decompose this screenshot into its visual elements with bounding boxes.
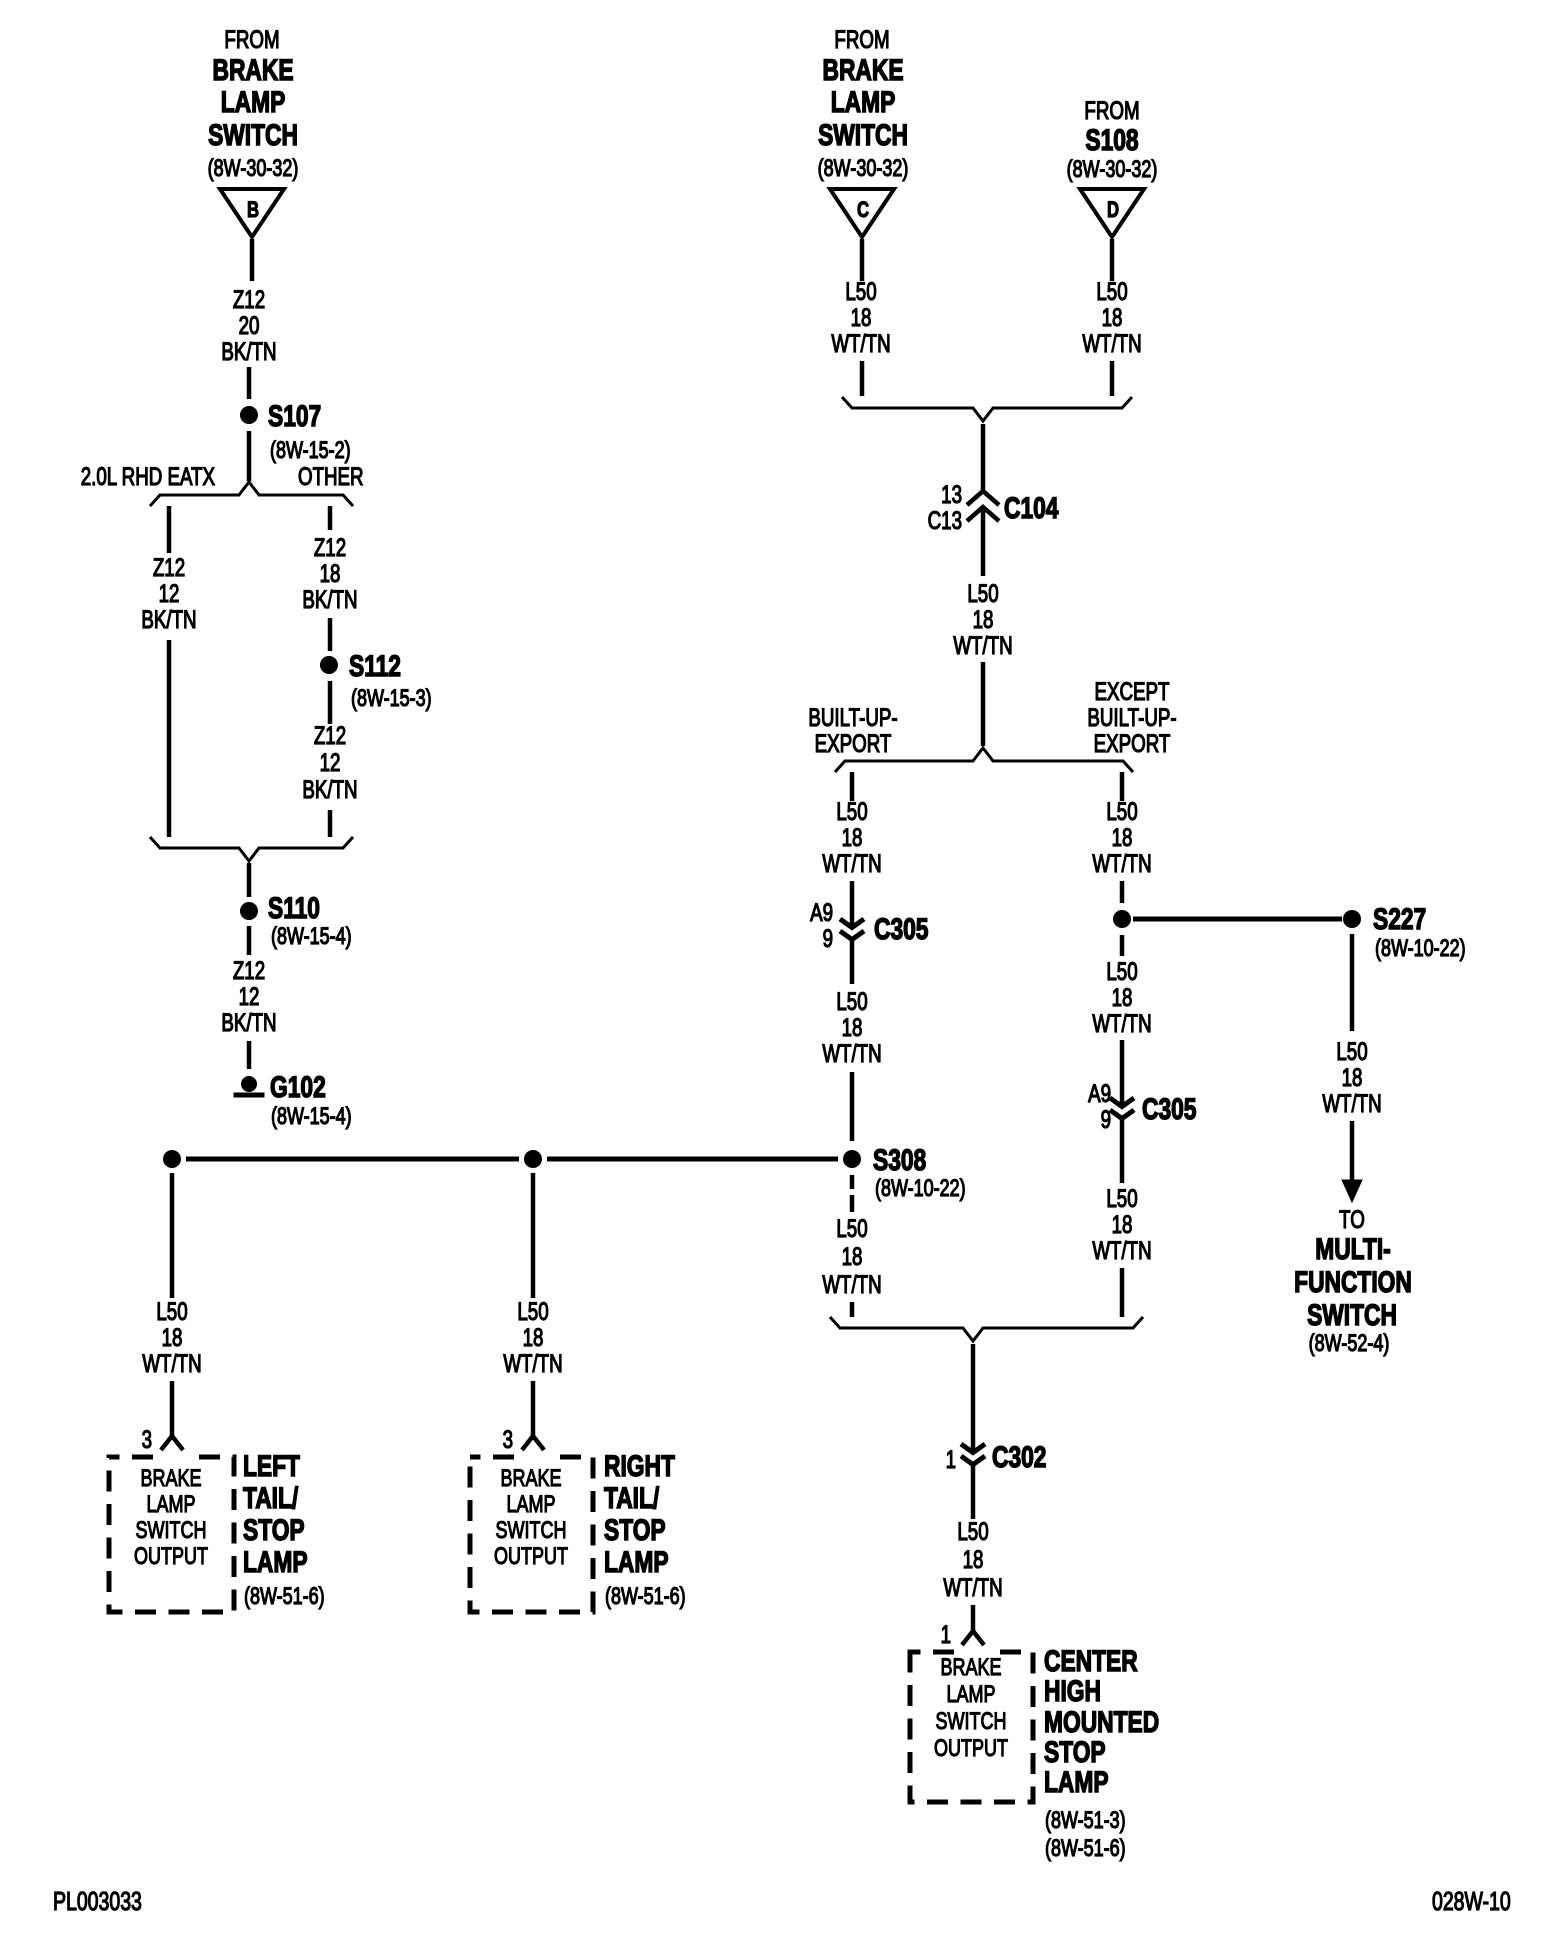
wire label L50 18 WT/TN middle drop xyxy=(503,1297,562,1377)
svg-text:A9: A9 xyxy=(810,898,833,926)
component box RIGHT TAIL/STOP LAMP xyxy=(470,1454,593,1613)
wire label L50 18 WT/TN below C302 xyxy=(943,1517,1002,1601)
wire below junction node xyxy=(1120,935,1125,956)
svg-text:BRAKE: BRAKE xyxy=(822,53,903,87)
connector fork left lamp xyxy=(161,1436,183,1450)
svg-text:G102: G102 xyxy=(270,1070,326,1104)
svg-text:18: 18 xyxy=(1102,303,1123,331)
wire label L50 18 WT/TN above S308 xyxy=(822,987,881,1067)
svg-text:L50: L50 xyxy=(517,1297,548,1325)
svg-text:B: B xyxy=(247,198,259,223)
wire label Z12 12 BK/TN to ground xyxy=(221,956,276,1036)
svg-text:L50: L50 xyxy=(1106,1184,1137,1212)
svg-text:SWITCH: SWITCH xyxy=(136,1518,207,1544)
svg-text:(8W-51-6): (8W-51-6) xyxy=(1045,1836,1126,1862)
svg-text:(8W-10-22): (8W-10-22) xyxy=(875,1176,966,1202)
svg-text:FROM: FROM xyxy=(1084,96,1139,124)
wire merge to C104 xyxy=(981,424,986,492)
svg-text:BK/TN: BK/TN xyxy=(141,605,196,633)
svg-text:WT/TN: WT/TN xyxy=(1092,1236,1151,1264)
svg-text:(8W-15-4): (8W-15-4) xyxy=(271,1104,352,1130)
svg-text:18: 18 xyxy=(523,1323,544,1351)
node D source label FROM S108 xyxy=(1067,96,1158,182)
svg-text:18: 18 xyxy=(842,1242,863,1270)
branch label OTHER xyxy=(298,462,364,490)
wire right branch upper xyxy=(328,506,333,530)
wire below S227 xyxy=(1350,934,1355,1031)
wire below S308 xyxy=(850,1175,855,1212)
svg-text:SWITCH: SWITCH xyxy=(496,1518,567,1544)
svg-text:BK/TN: BK/TN xyxy=(221,337,276,365)
wire below S110 xyxy=(247,926,252,955)
label CENTER HIGH MOUNTED STOP LAMP xyxy=(1044,1644,1159,1862)
wire label L50 18 WT/TN left drop xyxy=(142,1297,201,1377)
svg-text:12: 12 xyxy=(320,748,341,776)
wire below S112 xyxy=(328,681,333,724)
wire merge to C302 xyxy=(971,1344,976,1452)
label EXCEPT BUILT-UP-EXPORT xyxy=(1087,677,1176,757)
wire from triangle C xyxy=(860,239,865,281)
svg-text:BK/TN: BK/TN xyxy=(302,775,357,803)
svg-text:18: 18 xyxy=(162,1323,183,1351)
off-page connector triangle C xyxy=(830,189,894,237)
wire label L50 18 WT/TN below S308 xyxy=(822,1214,881,1298)
svg-text:9: 9 xyxy=(1101,1105,1111,1133)
wire label L50 18 WT/TN except branch xyxy=(1092,797,1151,877)
svg-text:S108: S108 xyxy=(1085,123,1138,157)
svg-text:18: 18 xyxy=(963,1545,984,1573)
connector fork right lamp xyxy=(522,1436,544,1450)
svg-text:LAMP: LAMP xyxy=(146,1492,195,1518)
splice S308 xyxy=(843,1143,966,1202)
svg-text:12: 12 xyxy=(159,579,180,607)
svg-text:WT/TN: WT/TN xyxy=(503,1349,562,1377)
wire to center lamp xyxy=(971,1605,976,1631)
svg-text:(8W-30-32): (8W-30-32) xyxy=(1067,157,1158,183)
wire to ground G102 xyxy=(247,1041,252,1069)
svg-text:(8W-51-6): (8W-51-6) xyxy=(605,1584,686,1610)
wire into S308 xyxy=(850,1072,855,1141)
wire label L50 18 WT/TN above C305 right xyxy=(1092,957,1151,1037)
connector C302 xyxy=(946,1440,1047,1474)
svg-text:L50: L50 xyxy=(836,987,867,1015)
junction node middle rail xyxy=(524,1150,542,1168)
svg-text:Z12: Z12 xyxy=(314,533,346,561)
svg-text:(8W-30-32): (8W-30-32) xyxy=(818,156,909,182)
svg-text:18: 18 xyxy=(851,303,872,331)
wire label L50 18 WT/TN column C xyxy=(831,277,890,357)
wire left branch upper xyxy=(167,506,172,553)
svg-text:STOP: STOP xyxy=(604,1513,666,1547)
svg-text:S308: S308 xyxy=(873,1143,926,1177)
svg-text:13: 13 xyxy=(941,480,962,508)
svg-text:(8W-15-4): (8W-15-4) xyxy=(271,924,352,950)
svg-text:WT/TN: WT/TN xyxy=(1322,1089,1381,1117)
label RIGHT TAIL/STOP LAMP xyxy=(604,1449,686,1610)
wire label Z12 12 BK/TN left branch xyxy=(141,553,196,633)
svg-text:LAMP: LAMP xyxy=(604,1545,669,1579)
off-page connector triangle B xyxy=(220,189,284,237)
svg-text:FROM: FROM xyxy=(834,25,889,53)
svg-text:MULTI-: MULTI- xyxy=(1315,1232,1391,1266)
svg-text:BRAKE: BRAKE xyxy=(140,1466,201,1492)
svg-text:OTHER: OTHER xyxy=(298,462,364,490)
junction node left rail xyxy=(163,1150,181,1168)
svg-text:TAIL/: TAIL/ xyxy=(243,1481,299,1515)
node C source label FROM BRAKE LAMP SWITCH xyxy=(818,25,909,181)
wire middle drop lower xyxy=(531,1381,536,1436)
pin 3 left lamp xyxy=(142,1425,152,1453)
svg-text:S112: S112 xyxy=(349,649,401,683)
splice S107 xyxy=(240,399,351,464)
component box LEFT TAIL/STOP LAMP xyxy=(109,1454,234,1613)
wire to multifunction switch arrow xyxy=(1350,1121,1355,1181)
svg-text:WT/TN: WT/TN xyxy=(142,1349,201,1377)
split brace below S107 xyxy=(150,482,353,506)
box text BRAKE LAMP SWITCH OUTPUT middle xyxy=(494,1466,568,1570)
svg-text:C13: C13 xyxy=(928,506,962,534)
wire to splice S107 xyxy=(247,367,252,399)
svg-text:Z12: Z12 xyxy=(233,956,265,984)
wire below C104 xyxy=(981,509,986,576)
merge brace above S110 xyxy=(150,837,353,861)
splice S112 xyxy=(320,649,432,712)
svg-text:WT/TN: WT/TN xyxy=(943,1573,1002,1601)
svg-text:SWITCH: SWITCH xyxy=(208,118,298,152)
label LEFT TAIL/STOP LAMP xyxy=(243,1449,325,1610)
svg-text:20: 20 xyxy=(239,311,260,339)
svg-text:(8W-52-4): (8W-52-4) xyxy=(1309,1331,1390,1357)
splice S227 xyxy=(1343,902,1466,962)
pin 1 center lamp xyxy=(941,1620,951,1648)
svg-text:WT/TN: WT/TN xyxy=(822,849,881,877)
merge brace to C302 xyxy=(830,1317,1143,1341)
off-page connector triangle D xyxy=(1080,189,1144,237)
svg-text:L50: L50 xyxy=(967,579,998,607)
wire left drop lower xyxy=(170,1381,175,1436)
svg-text:WT/TN: WT/TN xyxy=(831,329,890,357)
svg-text:18: 18 xyxy=(1112,1210,1133,1238)
box text BRAKE LAMP SWITCH OUTPUT center xyxy=(934,1655,1008,1762)
svg-text:C302: C302 xyxy=(992,1440,1046,1474)
svg-text:(8W-15-3): (8W-15-3) xyxy=(351,686,432,712)
connector fork center lamp xyxy=(962,1631,984,1645)
svg-text:BRAKE: BRAKE xyxy=(940,1655,1001,1681)
rail wire right segment xyxy=(547,1157,838,1162)
svg-text:(8W-51-6): (8W-51-6) xyxy=(244,1584,325,1610)
svg-text:D: D xyxy=(1107,198,1119,223)
wire below C305 left xyxy=(850,939,855,984)
wire left drop upper xyxy=(170,1173,175,1298)
wire S107 to split xyxy=(247,431,252,481)
wire right branch lower xyxy=(328,810,333,837)
merge brace C and D xyxy=(842,397,1132,421)
svg-text:C305: C305 xyxy=(1142,1092,1197,1126)
svg-text:BRAKE: BRAKE xyxy=(500,1466,561,1492)
svg-text:OUTPUT: OUTPUT xyxy=(494,1544,568,1570)
svg-text:BUILT-UP-: BUILT-UP- xyxy=(1087,703,1176,731)
svg-text:BRAKE: BRAKE xyxy=(212,53,293,87)
rail wire left segment xyxy=(186,1157,519,1162)
svg-text:L50: L50 xyxy=(1106,957,1137,985)
svg-text:STOP: STOP xyxy=(1044,1735,1106,1769)
svg-text:LAMP: LAMP xyxy=(221,85,286,119)
svg-text:S107: S107 xyxy=(268,399,321,433)
svg-text:WT/TN: WT/TN xyxy=(1092,1009,1151,1037)
splice S110 xyxy=(240,891,352,950)
svg-text:BUILT-UP-: BUILT-UP- xyxy=(808,703,897,731)
svg-text:1: 1 xyxy=(946,1445,956,1473)
svg-text:(8W-10-22): (8W-10-22) xyxy=(1375,936,1466,962)
svg-text:3: 3 xyxy=(503,1425,513,1453)
wire label L50 18 WT/TN built-up xyxy=(822,797,881,877)
label TO MULTI-FUNCTION SWITCH xyxy=(1294,1205,1412,1356)
svg-text:WT/TN: WT/TN xyxy=(822,1270,881,1298)
svg-text:12: 12 xyxy=(239,982,260,1010)
label BUILT-UP-EXPORT xyxy=(808,703,897,757)
wire to export split xyxy=(981,662,986,746)
svg-text:3: 3 xyxy=(142,1425,152,1453)
svg-text:FROM: FROM xyxy=(224,25,279,53)
wire except branch to merge xyxy=(1120,1268,1125,1317)
svg-text:L50: L50 xyxy=(836,797,867,825)
svg-text:Z12: Z12 xyxy=(233,285,265,313)
svg-text:SWITCH: SWITCH xyxy=(1307,1298,1397,1332)
svg-text:TAIL/: TAIL/ xyxy=(604,1481,660,1515)
wire label Z12 18 BK/TN right branch xyxy=(302,533,357,613)
wire junction to S227 xyxy=(1133,917,1342,922)
wire from triangle D xyxy=(1110,239,1115,281)
svg-text:L50: L50 xyxy=(836,1214,867,1242)
svg-text:EXCEPT: EXCEPT xyxy=(1095,677,1170,705)
svg-text:2.0L RHD EATX: 2.0L RHD EATX xyxy=(81,462,216,490)
split brace export xyxy=(835,748,1133,772)
svg-text:18: 18 xyxy=(842,1013,863,1041)
footer code 028W-10 xyxy=(1432,1886,1511,1915)
junction node to S227 xyxy=(1113,910,1131,928)
svg-text:PL003033: PL003033 xyxy=(53,1886,142,1915)
svg-text:L50: L50 xyxy=(957,1517,988,1545)
wire left branch long xyxy=(167,640,172,837)
connector C305 right xyxy=(1088,1079,1197,1133)
svg-text:EXPORT: EXPORT xyxy=(815,729,892,757)
wire to C305 left xyxy=(850,881,855,927)
svg-text:S227: S227 xyxy=(1373,902,1426,936)
svg-text:S110: S110 xyxy=(268,891,320,925)
wire merge to S110 xyxy=(247,863,252,897)
svg-text:CENTER: CENTER xyxy=(1044,1644,1138,1678)
svg-text:(8W-51-3): (8W-51-3) xyxy=(1045,1808,1126,1834)
svg-text:BK/TN: BK/TN xyxy=(221,1008,276,1036)
wire C to merge xyxy=(860,361,865,396)
wire label Z12 20 BK/TN xyxy=(221,285,276,365)
connector C104 xyxy=(928,480,1059,534)
branch label 2.0L RHD EATX xyxy=(81,462,216,490)
svg-text:L50: L50 xyxy=(156,1297,187,1325)
svg-text:(8W-30-32): (8W-30-32) xyxy=(208,156,299,182)
wire D to merge xyxy=(1110,361,1115,396)
svg-text:LAMP: LAMP xyxy=(506,1492,555,1518)
svg-text:SWITCH: SWITCH xyxy=(936,1709,1007,1735)
svg-text:MOUNTED: MOUNTED xyxy=(1044,1705,1159,1739)
svg-text:L50: L50 xyxy=(1106,797,1137,825)
svg-text:C: C xyxy=(857,198,869,223)
svg-text:(8W-15-2): (8W-15-2) xyxy=(270,438,351,464)
svg-text:WT/TN: WT/TN xyxy=(1082,329,1141,357)
wire middle drop upper xyxy=(531,1173,536,1298)
svg-text:OUTPUT: OUTPUT xyxy=(134,1544,208,1570)
svg-text:Z12: Z12 xyxy=(314,721,346,749)
svg-text:FUNCTION: FUNCTION xyxy=(1294,1265,1412,1299)
svg-text:18: 18 xyxy=(973,605,994,633)
svg-text:A9: A9 xyxy=(1088,1079,1111,1107)
svg-text:L50: L50 xyxy=(845,277,876,305)
svg-text:LAMP: LAMP xyxy=(1044,1765,1109,1799)
svg-text:Z12: Z12 xyxy=(153,553,185,581)
svg-text:BK/TN: BK/TN xyxy=(302,585,357,613)
wire label L50 18 WT/TN column D xyxy=(1082,277,1141,357)
node B source label FROM BRAKE LAMP SWITCH xyxy=(208,25,299,181)
svg-text:WT/TN: WT/TN xyxy=(822,1039,881,1067)
svg-text:TO: TO xyxy=(1339,1205,1365,1233)
wire label L50 18 WT/TN below C305 right xyxy=(1092,1184,1151,1264)
wire label Z12 12 BK/TN below S112 xyxy=(302,721,357,803)
svg-text:L50: L50 xyxy=(1096,277,1127,305)
svg-text:LAMP: LAMP xyxy=(243,1545,308,1579)
svg-text:EXPORT: EXPORT xyxy=(1094,729,1171,757)
svg-text:C104: C104 xyxy=(1004,491,1059,525)
wire from triangle B down xyxy=(250,239,255,281)
wire below C302 xyxy=(971,1464,976,1519)
wire below C305 right xyxy=(1120,1118,1125,1183)
svg-text:028W-10: 028W-10 xyxy=(1432,1886,1511,1915)
wire label L50 18 WT/TN below C104 xyxy=(953,579,1012,659)
svg-text:18: 18 xyxy=(1342,1063,1363,1091)
svg-text:L50: L50 xyxy=(1336,1037,1367,1065)
svg-text:WT/TN: WT/TN xyxy=(953,631,1012,659)
wire S308 branch to merge xyxy=(850,1302,855,1317)
svg-text:18: 18 xyxy=(1112,823,1133,851)
svg-text:18: 18 xyxy=(320,559,341,587)
svg-text:18: 18 xyxy=(1112,983,1133,1011)
svg-text:LAMP: LAMP xyxy=(946,1682,995,1708)
wire except branch upper xyxy=(1120,772,1125,801)
svg-text:18: 18 xyxy=(842,823,863,851)
ground G102 xyxy=(234,1070,352,1130)
connector C305 left xyxy=(810,898,929,952)
svg-text:C305: C305 xyxy=(874,912,929,946)
svg-text:OUTPUT: OUTPUT xyxy=(934,1736,1008,1762)
svg-text:SWITCH: SWITCH xyxy=(818,118,908,152)
svg-text:WT/TN: WT/TN xyxy=(1092,849,1151,877)
svg-text:LEFT: LEFT xyxy=(243,1449,300,1483)
wire to splice S112 xyxy=(328,618,333,651)
svg-text:9: 9 xyxy=(823,924,833,952)
svg-text:1: 1 xyxy=(941,1620,951,1648)
svg-text:HIGH: HIGH xyxy=(1044,1674,1101,1708)
footer code PL003033 xyxy=(53,1886,142,1915)
svg-text:RIGHT: RIGHT xyxy=(604,1449,675,1483)
wire built-up branch upper xyxy=(850,772,855,801)
arrow to multifunction switch xyxy=(1342,1180,1362,1202)
component box CENTER HIGH MOUNTED STOP LAMP xyxy=(910,1649,1033,1803)
svg-text:LAMP: LAMP xyxy=(831,85,896,119)
wire to C305 right xyxy=(1120,1040,1125,1106)
wire to junction node xyxy=(1120,881,1125,903)
wire label L50 18 WT/TN below S227 xyxy=(1322,1037,1381,1117)
box text BRAKE LAMP SWITCH OUTPUT left xyxy=(134,1466,208,1570)
svg-text:STOP: STOP xyxy=(243,1513,305,1547)
pin 3 right lamp xyxy=(503,1425,513,1453)
